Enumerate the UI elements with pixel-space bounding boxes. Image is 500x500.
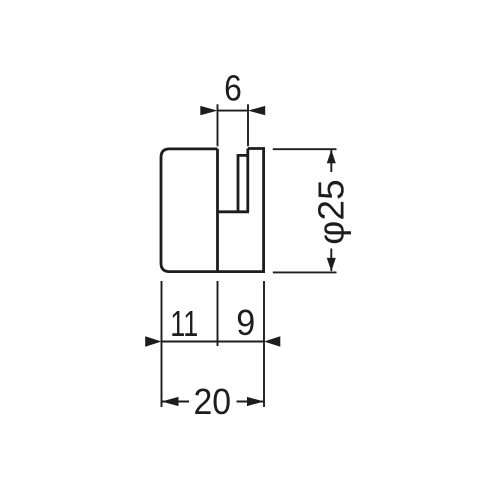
dim 11/9: dimension line — [162, 341, 265, 343]
slot bottom — [216, 210, 249, 213]
svg-text:11: 11 — [170, 303, 198, 344]
dim phi25: bottom arrowhead — [327, 258, 336, 272]
dim 11/9: left arrowhead — [145, 336, 161, 346]
part body outline — [161, 149, 264, 272]
dim 20: dimension line segments — [162, 401, 265, 403]
svg-text:φ25: φ25 — [311, 179, 352, 245]
svg-text:20: 20 — [194, 381, 232, 422]
dim 11/9: extension lines — [162, 281, 265, 407]
dim 6: right arrowhead — [248, 106, 265, 115]
dim 20: right arrowhead — [247, 397, 264, 406]
dim 11/9: right arrowhead — [264, 336, 280, 346]
dim 6: extension lines — [218, 104, 249, 146]
slot left wall / division line — [216, 149, 219, 272]
svg-text:6: 6 — [224, 68, 242, 109]
dim phi25: dimension line segments — [330, 150, 332, 271]
dim 6: left arrowhead — [200, 106, 217, 115]
dim 6: dimension line — [218, 110, 249, 112]
slot right wall — [246, 149, 249, 212]
dim 20: left arrowhead — [162, 397, 179, 406]
dim phi25: extension lines — [273, 149, 337, 272]
svg-text:9: 9 — [236, 302, 255, 343]
dim phi25: top arrowhead — [327, 150, 336, 164]
inner tab — [238, 155, 248, 211]
